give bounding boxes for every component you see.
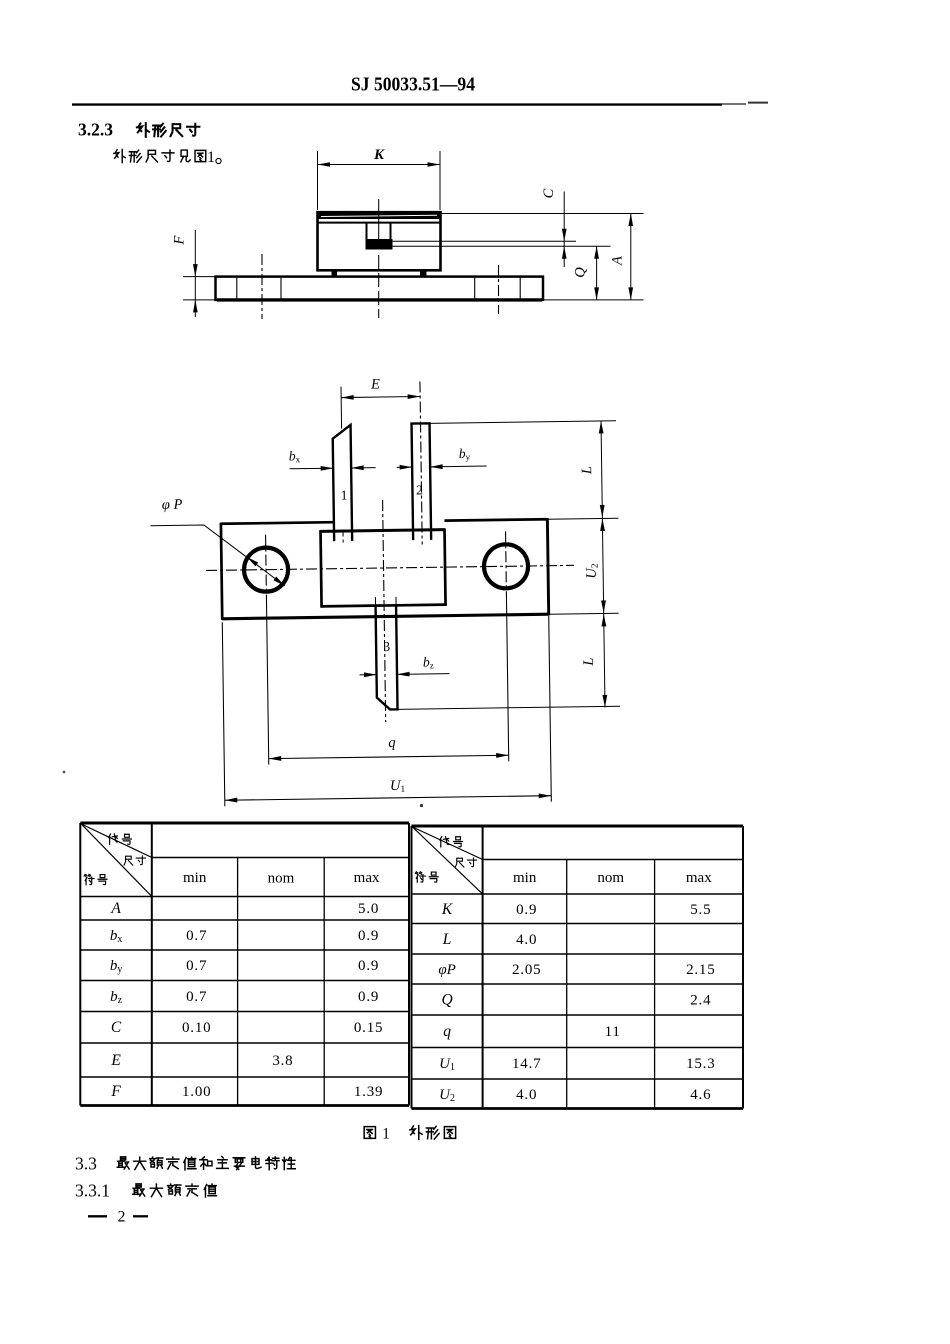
dimension Q line: [596, 246, 598, 300]
hidden hole edge lines in flange: [236, 278, 238, 299]
svg-text:nom: nom: [268, 871, 295, 887]
svg-text:0.9: 0.9: [358, 989, 379, 1005]
horizontal centerline through holes: [206, 565, 574, 570]
svg-text:bz: bz: [423, 654, 434, 670]
svg-text:2.4: 2.4: [690, 993, 711, 1009]
dimension C line: [563, 192, 565, 268]
cap mounting foot left: [332, 270, 338, 276]
cap top hatch band: [317, 212, 442, 219]
dimension A line: [630, 214, 632, 300]
svg-text:0.9: 0.9: [358, 928, 379, 944]
svg-text:2: 2: [118, 1209, 126, 1226]
lead 2 outline: [412, 423, 432, 540]
lead 3 slot edges above cap bottom: [374, 597, 376, 605]
svg-text:4.0: 4.0: [516, 932, 537, 948]
dimension line L / U2 / L: [601, 421, 605, 707]
svg-text:A: A: [110, 900, 121, 917]
flange left edge: [221, 523, 222, 620]
svg-text:0.7: 0.7: [186, 958, 207, 974]
hole centerline left: [261, 254, 263, 319]
svg-text:Q: Q: [573, 267, 589, 278]
cap mounting foot right: [420, 270, 427, 276]
cap top extension line to dimension A: [441, 213, 644, 215]
flange top edge: [221, 522, 333, 524]
lead 1 outline: [333, 425, 353, 541]
svg-text:4.0: 4.0: [516, 1087, 537, 1103]
leader line C lower / Q reference: [393, 245, 611, 247]
svg-text:by: by: [459, 446, 471, 462]
svg-text:15.3: 15.3: [686, 1056, 715, 1072]
table corner header texts: [440, 837, 449, 847]
svg-text:bx: bx: [110, 928, 123, 945]
dimension U1 line: [225, 796, 551, 801]
svg-text:0.9: 0.9: [358, 958, 379, 974]
svg-text:3.2.3: 3.2.3: [78, 120, 113, 140]
svg-text:3.3.1: 3.3.1: [75, 1181, 110, 1201]
flange top reference extension: [547, 517, 618, 520]
table outer border: [412, 825, 744, 828]
mounting hole left centerline: [265, 535, 268, 606]
svg-text:K: K: [373, 147, 385, 163]
svg-text:3: 3: [383, 639, 390, 654]
svg-text:q: q: [443, 1023, 451, 1040]
table outer border: [80, 822, 409, 825]
svg-text:1.00: 1.00: [182, 1084, 211, 1100]
svg-text:L: L: [442, 931, 452, 948]
svg-text:C: C: [541, 188, 557, 198]
svg-text:L: L: [579, 466, 595, 475]
figure caption: figure 1 outline drawing: [364, 1127, 375, 1139]
svg-text:max: max: [354, 870, 380, 886]
table header split line: [152, 857, 409, 859]
table header bottom line: [80, 896, 409, 898]
svg-text:F: F: [172, 235, 188, 245]
hole centerline extensions down: [267, 606, 269, 765]
svg-text:1: 1: [341, 488, 348, 503]
svg-text:C: C: [111, 1019, 122, 1036]
svg-text:3.3: 3.3: [75, 1154, 97, 1174]
stray ink dot: [420, 804, 423, 807]
cap body outline: [318, 212, 441, 270]
dimension E extension line: [340, 387, 343, 429]
svg-text:A: A: [610, 256, 626, 266]
lead 3 bottom reference line: [398, 706, 620, 709]
die block filled: [366, 239, 393, 250]
svg-text:U1: U1: [439, 1056, 455, 1073]
flange bottom extension right for Q and A: [543, 299, 644, 301]
svg-text:bz: bz: [110, 989, 123, 1006]
flange side view outline: [216, 277, 544, 300]
table header split line: [483, 859, 743, 861]
page number - 2 -: [88, 1215, 107, 1217]
flange right edge: [547, 518, 548, 615]
lead 1 hidden centerline stub: [342, 532, 344, 543]
table corner header texts: [109, 834, 118, 844]
svg-text:min: min: [183, 870, 207, 886]
mounting hole left: [244, 547, 289, 592]
svg-text:φ P: φ P: [162, 497, 183, 513]
mounting hole right: [484, 544, 529, 589]
drawing 1: side view group: [172, 147, 644, 319]
flange bottom extension left for F: [183, 299, 216, 301]
svg-text:bx: bx: [289, 448, 301, 464]
dimension bx lines: [290, 467, 333, 470]
svg-text:1: 1: [207, 149, 215, 166]
svg-text:U2: U2: [439, 1087, 455, 1104]
inner pedestal left wall: [366, 223, 368, 246]
dimension E line: [341, 396, 420, 397]
svg-text:φP: φP: [438, 962, 455, 978]
central vertical centerline: [383, 500, 386, 722]
dimension bz lines: [360, 674, 377, 676]
svg-text:SJ 50033.51—94: SJ 50033.51—94: [351, 75, 475, 96]
svg-text:by: by: [110, 958, 123, 975]
svg-text:F: F: [110, 1083, 121, 1100]
hole centerline right: [498, 265, 500, 314]
mounting hole right centerline: [505, 531, 508, 598]
phi P leader line: [150, 524, 284, 588]
svg-text:K: K: [441, 901, 453, 918]
table column lines: [482, 826, 484, 1109]
table row lines: [412, 923, 744, 925]
flange top extension left for F: [183, 276, 216, 278]
dimension K line: [318, 164, 441, 166]
drawing 2: top view group (slight scan tilt): [148, 373, 622, 807]
flange edge extensions down: [222, 622, 225, 806]
svg-text:E: E: [370, 377, 380, 393]
svg-text:L: L: [581, 657, 597, 666]
svg-text:2.15: 2.15: [686, 962, 715, 978]
svg-text:E: E: [110, 1052, 121, 1069]
svg-text:1.39: 1.39: [354, 1084, 383, 1100]
flange bottom edge: [222, 614, 548, 619]
svg-text:5.0: 5.0: [358, 901, 379, 917]
dimension F line: [194, 230, 196, 317]
cap centerline: [378, 199, 380, 249]
lead 3 outline: [376, 605, 398, 709]
flange bottom reference extension: [549, 612, 619, 615]
svg-text:11: 11: [605, 1024, 621, 1040]
cap body rectangle top view: [321, 530, 445, 532]
svg-text:U2: U2: [583, 563, 600, 579]
svg-text:0.7: 0.7: [186, 989, 207, 1005]
svg-text:0.7: 0.7: [186, 928, 207, 944]
table row lines: [80, 919, 409, 921]
dimension q line: [269, 755, 509, 758]
svg-text:2: 2: [416, 482, 423, 497]
cap lid line: [318, 222, 441, 224]
svg-text:0.10: 0.10: [182, 1020, 211, 1036]
header rule: [72, 103, 722, 105]
table column lines: [151, 823, 153, 1106]
table diagonal lines: [81, 824, 152, 858]
table diagonal lines: [413, 827, 483, 860]
lead 2 centerline: [420, 381, 422, 544]
svg-text:5.5: 5.5: [690, 902, 711, 918]
svg-text:0.9: 0.9: [516, 902, 537, 918]
top of leads reference line: [430, 421, 616, 424]
svg-text:max: max: [686, 870, 712, 886]
table header bottom line: [412, 893, 744, 895]
svg-text:2.05: 2.05: [512, 962, 541, 978]
svg-text:4.6: 4.6: [690, 1087, 711, 1103]
svg-text:1: 1: [382, 1126, 390, 1143]
dimension by lines: [397, 466, 412, 468]
leader line C upper: [393, 240, 577, 242]
svg-text:3.8: 3.8: [272, 1053, 293, 1069]
svg-text:U1: U1: [390, 778, 406, 795]
svg-text:min: min: [513, 870, 537, 886]
dimension K extension lines: [317, 151, 319, 210]
svg-text:q: q: [388, 735, 395, 751]
svg-text:Q: Q: [441, 992, 452, 1009]
svg-text:14.7: 14.7: [512, 1056, 541, 1072]
paragraph: dimensions see figure 1: [114, 150, 126, 163]
svg-text:0.15: 0.15: [354, 1020, 383, 1036]
svg-text:nom: nom: [597, 870, 624, 886]
inner pedestal right wall: [390, 223, 392, 241]
